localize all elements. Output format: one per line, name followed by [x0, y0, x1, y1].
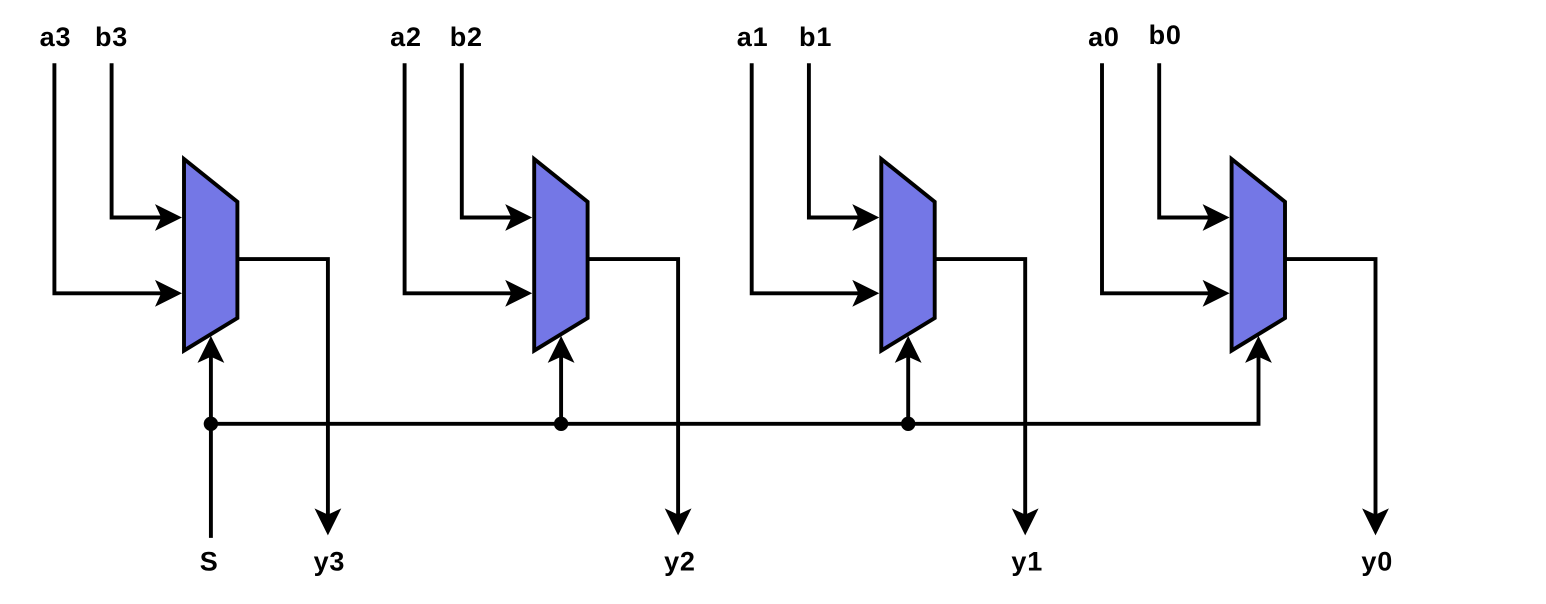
wire select bus S: horizontal run with corner up into mux U4	[211, 342, 1259, 424]
wire output of mux U2 to y2	[588, 259, 679, 529]
arrowhead a2 into mux U2 lower data input	[505, 280, 532, 307]
arrowhead b0 into mux U4 upper data input	[1203, 204, 1230, 231]
multiplexer U4 (2:1 mux, trapezoid body)	[1232, 159, 1285, 351]
svg-text:b3: b3	[95, 22, 128, 52]
arrowhead select into mux U4	[1245, 336, 1272, 363]
wire b2 input: vertical drop and elbow into mux U2	[462, 63, 514, 217]
arrowhead b3 into mux U1 upper data input	[155, 204, 182, 231]
junction node on select bus at mux U3	[901, 417, 915, 431]
arrowhead select into mux U2	[548, 336, 575, 363]
svg-text:a2: a2	[390, 22, 422, 52]
arrowhead a1 into mux U3 lower data input	[852, 280, 879, 307]
wire b0 input: vertical drop and elbow into mux U4	[1159, 63, 1211, 217]
svg-text:S: S	[200, 547, 219, 577]
arrowhead a0 into mux U4 lower data input	[1203, 280, 1230, 307]
junction node on select bus at mux U2	[554, 417, 568, 431]
wire b1 input: vertical drop and elbow into mux U3	[809, 63, 861, 217]
svg-text:y0: y0	[1361, 547, 1393, 577]
svg-text:y3: y3	[314, 547, 346, 577]
arrowhead output y1	[1012, 508, 1039, 535]
junction node on select bus at mux U1	[204, 417, 218, 431]
svg-text:b0: b0	[1149, 20, 1182, 50]
svg-text:b2: b2	[450, 22, 483, 52]
arrowhead b1 into mux U3 upper data input	[852, 204, 879, 231]
wire a0 input: vertical drop and elbow into mux U4	[1102, 63, 1212, 293]
wire output of mux U1 to y3	[237, 259, 328, 529]
arrowhead output y3	[315, 508, 342, 535]
arrowhead output y2	[665, 508, 692, 535]
arrowhead b2 into mux U2 upper data input	[505, 204, 532, 231]
svg-text:a3: a3	[40, 22, 72, 52]
multiplexer U1 (2:1 mux, trapezoid body)	[184, 159, 237, 351]
wire output of mux U4 to y0	[1285, 259, 1376, 529]
wire a3 input: vertical drop and elbow into mux U1	[54, 63, 164, 293]
wire S select input up through junction into mux U1	[209, 342, 213, 538]
svg-text:b1: b1	[799, 22, 832, 52]
arrowhead a3 into mux U1 lower data input	[155, 280, 182, 307]
arrowhead select into mux U3	[895, 336, 922, 363]
wire a1 input: vertical drop and elbow into mux U3	[752, 63, 862, 293]
wire select stub from bus up into mux U3	[906, 342, 910, 424]
svg-text:a0: a0	[1088, 22, 1120, 52]
svg-text:y2: y2	[664, 547, 696, 577]
wire a2 input: vertical drop and elbow into mux U2	[405, 63, 515, 293]
svg-text:y1: y1	[1011, 547, 1043, 577]
wire b3 input: vertical drop and elbow into mux U1	[112, 63, 164, 217]
wire output of mux U3 to y1	[935, 259, 1025, 529]
svg-text:a1: a1	[737, 22, 769, 52]
multiplexer U3 (2:1 mux, trapezoid body)	[881, 159, 934, 351]
wire select stub from bus up into mux U2	[559, 342, 563, 424]
multiplexer U2 (2:1 mux, trapezoid body)	[534, 159, 587, 351]
arrowhead output y0	[1362, 508, 1389, 535]
arrowhead select into mux U1	[198, 336, 225, 363]
